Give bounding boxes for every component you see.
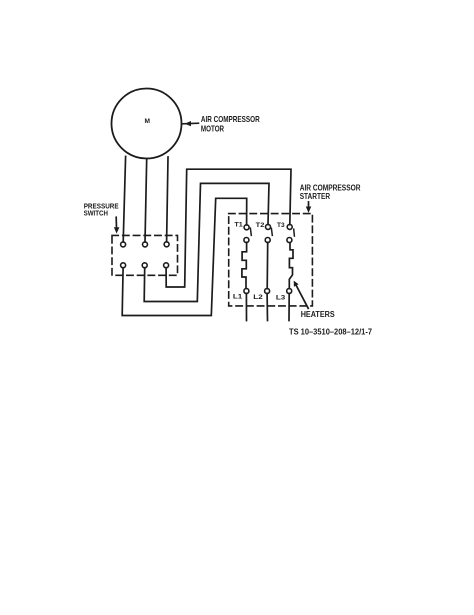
heater element H1 (242, 242, 247, 288)
arrow to motor (183, 121, 198, 126)
pressure switch contact 3 bottom (164, 263, 169, 268)
wire: right bottom contact to T3 (inner bottom loop, outer top loop) (166, 169, 291, 287)
contact blade pole 3 (293, 229, 296, 236)
svg-text:M: M (144, 118, 150, 125)
terminal L1 (244, 289, 249, 294)
pressure switch contact 2 bottom (142, 263, 147, 268)
contact blade pole 2 (270, 228, 273, 235)
pressure switch contact 2 top (143, 242, 148, 247)
wire: motor lead 1 (left) to pressure switch T contact (123, 156, 125, 242)
svg-text:L2: L2 (253, 294, 263, 301)
terminal T1 (244, 225, 249, 230)
svg-text:T3: T3 (277, 222, 285, 229)
wire: middle bottom contact to T2 (middle loops) (144, 183, 269, 301)
label PRESSURE SWITCH (84, 201, 119, 217)
wire: line lead L3 (288, 293, 290, 320)
label AIR COMPRESSOR STARTER (300, 184, 361, 201)
svg-text:T2: T2 (256, 222, 265, 229)
label AIR COMPRESSOR MOTOR (201, 114, 260, 133)
motor M1 circle (112, 89, 182, 159)
heater element H3 (289, 243, 293, 289)
arrow from starter label (306, 202, 312, 213)
terminal L3 (287, 289, 292, 294)
contact lower terminal pole 1 (244, 238, 249, 243)
wire: motor lead 3 (right) (167, 157, 168, 242)
svg-text:L1: L1 (233, 294, 243, 301)
pressure switch S1 dashed enclosure (112, 235, 178, 275)
wire pole 2 (no heater shown) (266, 242, 269, 288)
contact lower terminal pole 2 (265, 238, 270, 243)
svg-text:HEATERS: HEATERS (301, 310, 336, 319)
terminal L2 (265, 289, 270, 294)
svg-text:TS 10–3510–208–12/1-7: TS 10–3510–208–12/1-7 (289, 328, 372, 337)
arrow from pressure switch label (114, 217, 120, 233)
pressure switch contact 1 top (121, 242, 126, 247)
svg-text:STARTER: STARTER (300, 192, 331, 201)
wire: line lead L2 (266, 293, 268, 320)
contact blade pole 1 (249, 228, 252, 235)
svg-text:MOTOR: MOTOR (201, 123, 224, 133)
arrow to heaters (294, 281, 309, 309)
svg-text:T1: T1 (234, 221, 243, 228)
wire: line lead L1 (245, 293, 247, 320)
svg-text:SWITCH: SWITCH (84, 208, 108, 217)
contact lower terminal pole 3 (287, 238, 292, 243)
pressure switch contact 1 bottom (121, 263, 126, 268)
terminal T3 (287, 224, 292, 229)
wire: motor lead 2 (middle) (145, 159, 147, 242)
wire: left bottom contact to T1 (outer bottom loop, inner top loop) (122, 198, 247, 315)
svg-text:L3: L3 (276, 294, 286, 301)
pressure switch contact 3 top (164, 242, 169, 247)
starter K1 dashed enclosure (229, 214, 313, 306)
terminal T2 (266, 224, 271, 229)
